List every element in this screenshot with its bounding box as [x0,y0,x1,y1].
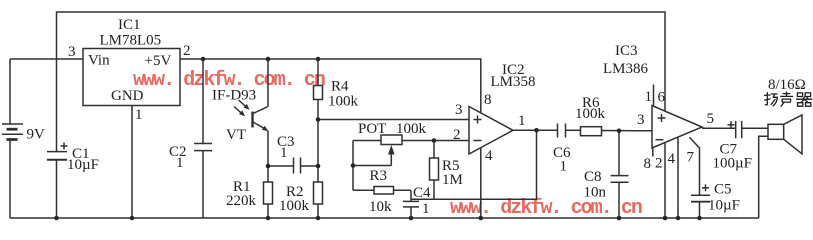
node: IC2 output [534,128,539,133]
svg-text:10k: 10k [369,199,392,215]
svg-text:8/16Ω: 8/16Ω [768,77,806,93]
node: C4 ground [409,216,414,221]
svg-text:+5V: +5V [145,53,172,69]
svg-text:IF-D93: IF-D93 [212,88,256,104]
IC1 LM78L05 regulator box [83,49,180,106]
svg-text:C4: C4 [413,185,431,201]
node: emitter / C3 / R1 [266,164,271,169]
wire: node to bias divider [317,120,319,167]
wire: IC3 pin1 stub [653,85,655,107]
svg-text:IC1: IC1 [118,17,141,33]
potentiometer POT 100k [353,135,434,190]
node: IC3 pin2 ground [663,216,668,221]
svg-text:2: 2 [655,156,663,172]
svg-text:POT: POT [358,121,386,137]
svg-text:LM78L05: LM78L05 [100,33,162,49]
svg-text:10µF: 10µF [67,157,99,173]
svg-text:8: 8 [484,92,492,108]
node: R4 top on +5V rail [316,57,321,62]
node: C5 ground [697,216,702,221]
svg-text:VT: VT [226,127,246,143]
svg-text:3: 3 [455,102,463,118]
svg-text:6: 6 [658,90,666,106]
wire: IC2 output feedback to R5/C4 node [411,130,537,199]
node: C3 / R2 [316,164,321,169]
svg-text:2: 2 [453,127,461,143]
wire: R4/C3/R2 node to IC2 pin3 [318,119,469,121]
svg-text:1: 1 [560,159,568,175]
svg-text:Vin: Vin [88,53,110,69]
battery B1 9V [2,59,23,218]
svg-text:IC3: IC3 [615,43,638,59]
svg-text:8: 8 [644,156,652,172]
resistor R4 100k [314,59,323,120]
capacitor C8 10n [611,131,629,218]
node: R1 ground [266,216,271,221]
resistor R3 10k [353,187,411,195]
svg-text:3: 3 [68,44,76,60]
svg-text:2: 2 [183,43,191,59]
svg-text:4: 4 [485,148,493,164]
wire: POT node to IC2 pin2 [434,140,469,142]
resistor R6 100k [581,127,653,136]
capacitor C2 1uF [194,59,212,218]
capacitor C7 100uF polarized coupling [728,121,769,138]
svg-text:1: 1 [518,113,526,129]
op-amp IC3 LM386 triangle [652,106,702,149]
svg-text:1M: 1M [442,172,463,188]
svg-text:4: 4 [668,151,676,167]
svg-text:7: 7 [687,150,695,166]
node: R6 / C8 / pin3 IC3 [617,129,622,134]
capacitor C6 1uF coupling [558,124,582,138]
svg-text:5: 5 [707,111,715,127]
svg-text:220k: 220k [226,193,257,209]
node: POT / R5 / pin2 [432,138,437,143]
capacitor C4 1uF [403,190,419,218]
wire: top 9V supply rail [57,12,666,152]
svg-text:C8: C8 [584,169,602,185]
node: C1 ground [54,216,59,221]
svg-text:100µF: 100µF [713,156,753,172]
svg-text:100k: 100k [328,94,359,110]
svg-text:100k: 100k [396,121,427,137]
svg-text:1: 1 [135,107,143,123]
resistor R5 1M [430,141,439,200]
svg-text:3: 3 [637,112,645,128]
node: IC3 pin4 ground [676,216,681,221]
node: POT wiper tie [351,163,356,168]
svg-text:1: 1 [645,89,653,105]
svg-text:100k: 100k [575,106,606,122]
wire: IC3 pin4 to ground [677,137,679,218]
svg-text:1: 1 [176,155,184,171]
resistor R1 220k [264,166,273,218]
svg-text:GND: GND [111,88,144,104]
node: IC2 pin4 ground [479,216,484,221]
svg-text:10µF: 10µF [708,198,740,214]
node: C8 ground [617,216,622,221]
svg-text:C5: C5 [714,182,732,198]
svg-text:10n: 10n [584,185,607,201]
capacitor C1 10uF polarized [47,143,68,219]
capacitor C5 10uF polarized [691,184,710,218]
node: R2 ground [316,216,321,221]
svg-text:1: 1 [280,145,288,161]
svg-text:LM386: LM386 [603,61,649,77]
wire: IC3 pin8 stub [652,148,654,157]
svg-text:9V: 9V [27,127,46,143]
node: IC1 pin1 ground [130,216,135,221]
svg-text:R4: R4 [331,79,349,95]
resistor R2 100k [314,166,323,218]
wire: IC3 pin5 output [702,127,736,129]
wire: IC1 pin1 GND to ground rail [131,106,133,219]
svg-text:1: 1 [422,201,430,217]
svg-text:R3: R3 [370,168,388,184]
speaker LS 8/16ohm [759,115,802,218]
svg-text:100k: 100k [279,198,310,214]
wire: bottom ground rail [10,217,759,219]
wire: +5V rail from IC1 pin2 to IC2 pin8 [180,59,481,113]
wire: IC3 pin7 to C5 [690,137,700,195]
phototransistor VT IF-D93 [234,59,268,166]
node: C2 top on +5V rail [201,57,206,62]
svg-text:LM358: LM358 [491,74,536,90]
svg-text:www. dzkfw. com. cn: www. dzkfw. com. cn [450,197,642,220]
op-amp IC2 LM358 triangle [469,107,558,219]
label speaker chinese YangShengQi drawn as paths [765,92,812,106]
wire: battery positive to IC1 Vin (node A row) [10,58,83,60]
node: R4 bottom / pin3 [316,117,321,122]
node: VT collector on +5V rail [266,57,271,62]
capacitor C3 1uF coupling [268,158,318,174]
wire: IC3 pin2 to ground [664,143,666,219]
